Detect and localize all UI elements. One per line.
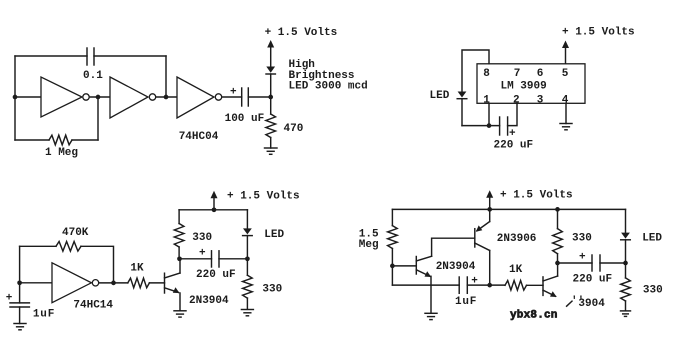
svg-text:+ 1.5 Volts: + 1.5 Volts <box>227 191 300 203</box>
node LED branch junction <box>245 256 250 261</box>
resistor R8 1K <box>505 281 527 291</box>
svg-text:470K: 470K <box>62 227 89 239</box>
svg-text:3: 3 <box>537 94 544 106</box>
wire rail corner to LED <box>625 209 627 232</box>
capacitor C5 220 uF <box>212 251 220 267</box>
svg-text:LED: LED <box>642 232 662 244</box>
wire top feedback right segment <box>94 55 166 57</box>
label High Brightness LED 3000 mcd <box>289 59 368 93</box>
svg-text:5: 5 <box>562 68 569 80</box>
watermark accent stroke <box>567 301 572 306</box>
LED D4 <box>621 233 631 263</box>
node output junction <box>268 95 273 100</box>
wire capacitor to pin 2 <box>508 103 517 125</box>
wire capacitor to output node <box>248 96 270 98</box>
svg-text:+: + <box>509 128 516 140</box>
wire inverter output <box>99 282 128 284</box>
svg-text:74HC04: 74HC04 <box>179 131 219 143</box>
wire pin 4 down <box>565 103 567 123</box>
svg-text:330: 330 <box>643 285 663 297</box>
wire base of Q2 <box>392 265 416 267</box>
svg-text:220 uF: 220 uF <box>494 139 534 151</box>
svg-text:220 uF: 220 uF <box>196 269 236 281</box>
wire node to resistor 470 <box>270 97 272 114</box>
svg-text:+ 1.5 Volts: + 1.5 Volts <box>265 27 338 39</box>
power +1.5V arrow <box>562 41 569 64</box>
node output junction <box>111 281 116 286</box>
label 1.5 Meg <box>359 228 379 251</box>
wire LED node to 330 lower <box>625 263 627 278</box>
wire left vertical input <box>19 246 21 303</box>
LED D1 high brightness <box>266 67 275 98</box>
resistor R4 1K <box>128 278 150 288</box>
wire 330 to collector node <box>557 254 559 263</box>
svg-text:4: 4 <box>562 94 569 106</box>
wire capacitor to LED branch <box>600 262 626 264</box>
wire 330 to ground <box>246 298 248 309</box>
transistor Q2 2N3904 <box>416 256 431 277</box>
svg-text:0.1: 0.1 <box>83 70 103 82</box>
svg-text:6: 6 <box>537 68 544 80</box>
svg-text:3904: 3904 <box>578 298 605 310</box>
ground circuit2 <box>560 124 572 130</box>
resistor R2 470 <box>266 114 276 138</box>
wire U1B output <box>156 96 177 98</box>
wire bottom left segment <box>392 284 459 286</box>
svg-text:330: 330 <box>192 232 212 244</box>
LED D2 <box>457 92 467 99</box>
transistor Q4 2N3904 <box>543 276 558 297</box>
wire vertical from feedback to U1B output <box>165 56 167 97</box>
wire 1K to Q4 base <box>527 284 544 286</box>
node U1A input junction <box>13 95 18 100</box>
svg-text:LM 3909: LM 3909 <box>501 81 547 93</box>
wire 1.5 Meg to base node <box>391 249 393 286</box>
svg-text:74HC14: 74HC14 <box>73 300 113 312</box>
power +1.5V arrow <box>211 191 218 210</box>
svg-text:+: + <box>230 87 237 99</box>
ground circuit3 emitter <box>174 311 186 317</box>
svg-text:1uF: 1uF <box>455 296 477 308</box>
svg-text:1K: 1K <box>130 263 144 275</box>
wire U1A input <box>15 96 41 98</box>
wire Q4 collector up <box>557 263 559 276</box>
svg-text:7: 7 <box>514 68 521 80</box>
svg-text:LED: LED <box>264 229 284 241</box>
wire collector up <box>179 259 181 273</box>
resistor R3 470K <box>56 242 81 252</box>
ground circuit1 <box>265 148 278 154</box>
node rail junction <box>212 207 217 212</box>
wire vertical to 1 Meg <box>97 97 99 140</box>
wire rail to 330 middle <box>557 209 559 228</box>
transistor Q1 2N3904 <box>165 273 181 293</box>
resistor R9 330 <box>553 229 563 254</box>
resistor R5 330 <box>174 224 184 248</box>
node Q4 collector junction <box>555 261 560 266</box>
wire top feedback left segment <box>15 55 87 57</box>
resistor R7 1.5 Meg <box>388 226 398 249</box>
wire 330 to ground <box>625 301 627 311</box>
ground circuit4 Q2 emitter <box>425 313 437 319</box>
node rail 330 junction <box>555 207 560 212</box>
svg-text:330: 330 <box>572 233 592 245</box>
wire 1K to base <box>149 282 164 284</box>
svg-text:ybx8.cn: ybx8.cn <box>510 310 558 322</box>
svg-text:470: 470 <box>284 123 304 135</box>
svg-text:1uF: 1uF <box>33 309 55 321</box>
wire top rail <box>392 208 625 210</box>
ground circuit4 LED branch <box>621 311 631 317</box>
LED D3 <box>243 228 253 258</box>
wire feedback right lead <box>81 246 114 283</box>
ground circuit3 input <box>14 324 26 330</box>
inverter U3 74HC14 <box>52 263 99 303</box>
svg-text:+: + <box>199 248 206 260</box>
wire collector node to capacitor <box>558 262 593 264</box>
node U1A output junction <box>96 95 101 100</box>
wire left vertical of feedback loop <box>14 56 16 140</box>
wire capacitor to LED branch <box>219 258 247 260</box>
svg-text:100 uF: 100 uF <box>225 113 265 125</box>
svg-text:8: 8 <box>483 68 490 80</box>
node base junction <box>390 264 395 269</box>
svg-text:Meg: Meg <box>359 239 379 251</box>
wire capacitor to 1K <box>467 284 505 286</box>
wire capacitor to ground <box>19 307 21 324</box>
wire feedback left lead <box>20 245 56 247</box>
wire LED to bottom wire <box>461 99 463 126</box>
node collector junction <box>177 256 182 261</box>
wire bottom left segment <box>462 125 500 127</box>
wire resistor to ground <box>270 138 272 149</box>
wire bottom left to resistor <box>15 139 49 141</box>
resistor R1 1 Meg <box>49 135 72 145</box>
svg-text:LED: LED <box>430 90 450 102</box>
wire inverter input <box>20 282 52 284</box>
wire bottom right of resistor <box>72 139 98 141</box>
svg-text:1 Meg: 1 Meg <box>45 147 78 159</box>
inverter U1A <box>41 77 89 117</box>
node rail arrow junction <box>487 207 492 212</box>
transistor Q3 2N3906 <box>475 209 490 285</box>
wire U1A output <box>90 96 111 98</box>
inverter U1C <box>177 77 222 118</box>
capacitor C4 1uF <box>10 303 29 307</box>
wire LED node to 330 lower <box>246 259 248 275</box>
svg-text:+ 1.5 Volts: + 1.5 Volts <box>500 190 573 202</box>
wire U1C output to capacitor <box>222 96 242 98</box>
wire top rail <box>179 209 247 211</box>
node input junction <box>17 280 22 285</box>
ground circuit3 LED branch <box>241 310 253 316</box>
resistor R6 330 <box>243 275 253 298</box>
svg-text:+: + <box>579 252 586 264</box>
node LED branch junction <box>623 261 628 266</box>
svg-text:220 uF: 220 uF <box>573 273 613 285</box>
svg-text:2N3904: 2N3904 <box>436 261 476 273</box>
inverter U1B <box>110 77 156 118</box>
wire rail to 330 left <box>178 210 180 224</box>
svg-text:2N3904: 2N3904 <box>189 295 229 307</box>
wire Q2 emitter down <box>430 276 432 313</box>
svg-text:LED 3000 mcd: LED 3000 mcd <box>289 81 368 93</box>
capacitor C 0.1 <box>87 48 94 65</box>
node U1B output junction <box>164 95 169 100</box>
resistor R10 330 <box>621 278 631 301</box>
capacitor C6 1uF <box>459 277 467 293</box>
capacitor C2 100 uF <box>242 88 249 106</box>
power +1.5V arrow <box>486 190 493 209</box>
wire 330 to collector node <box>178 247 180 259</box>
capacitor C3 220 uF <box>500 117 508 135</box>
power +1.5V arrow <box>267 40 274 67</box>
label 3904 partial under watermark <box>571 296 605 311</box>
node Q3 collector junction <box>487 283 492 288</box>
svg-text:+ 1.5 Volts: + 1.5 Volts <box>562 27 635 39</box>
wire rail to 1.5 Meg <box>391 209 393 225</box>
wire pin 1 down <box>488 103 490 125</box>
wire emitter down <box>179 293 181 311</box>
wire rail to LED <box>246 210 248 229</box>
node pin1 junction <box>487 123 492 128</box>
wire collector node to capacitor <box>180 258 212 260</box>
wire Q2 collector to Q3 base <box>432 238 475 256</box>
capacitor C7 220 uF <box>592 255 600 271</box>
svg-text:1K: 1K <box>509 264 523 276</box>
svg-text:2N3906: 2N3906 <box>497 233 537 245</box>
svg-text:330: 330 <box>262 284 282 296</box>
op-amp U2 LM3909 IC body <box>477 64 585 104</box>
wire pin 8 to top loop <box>462 50 489 92</box>
